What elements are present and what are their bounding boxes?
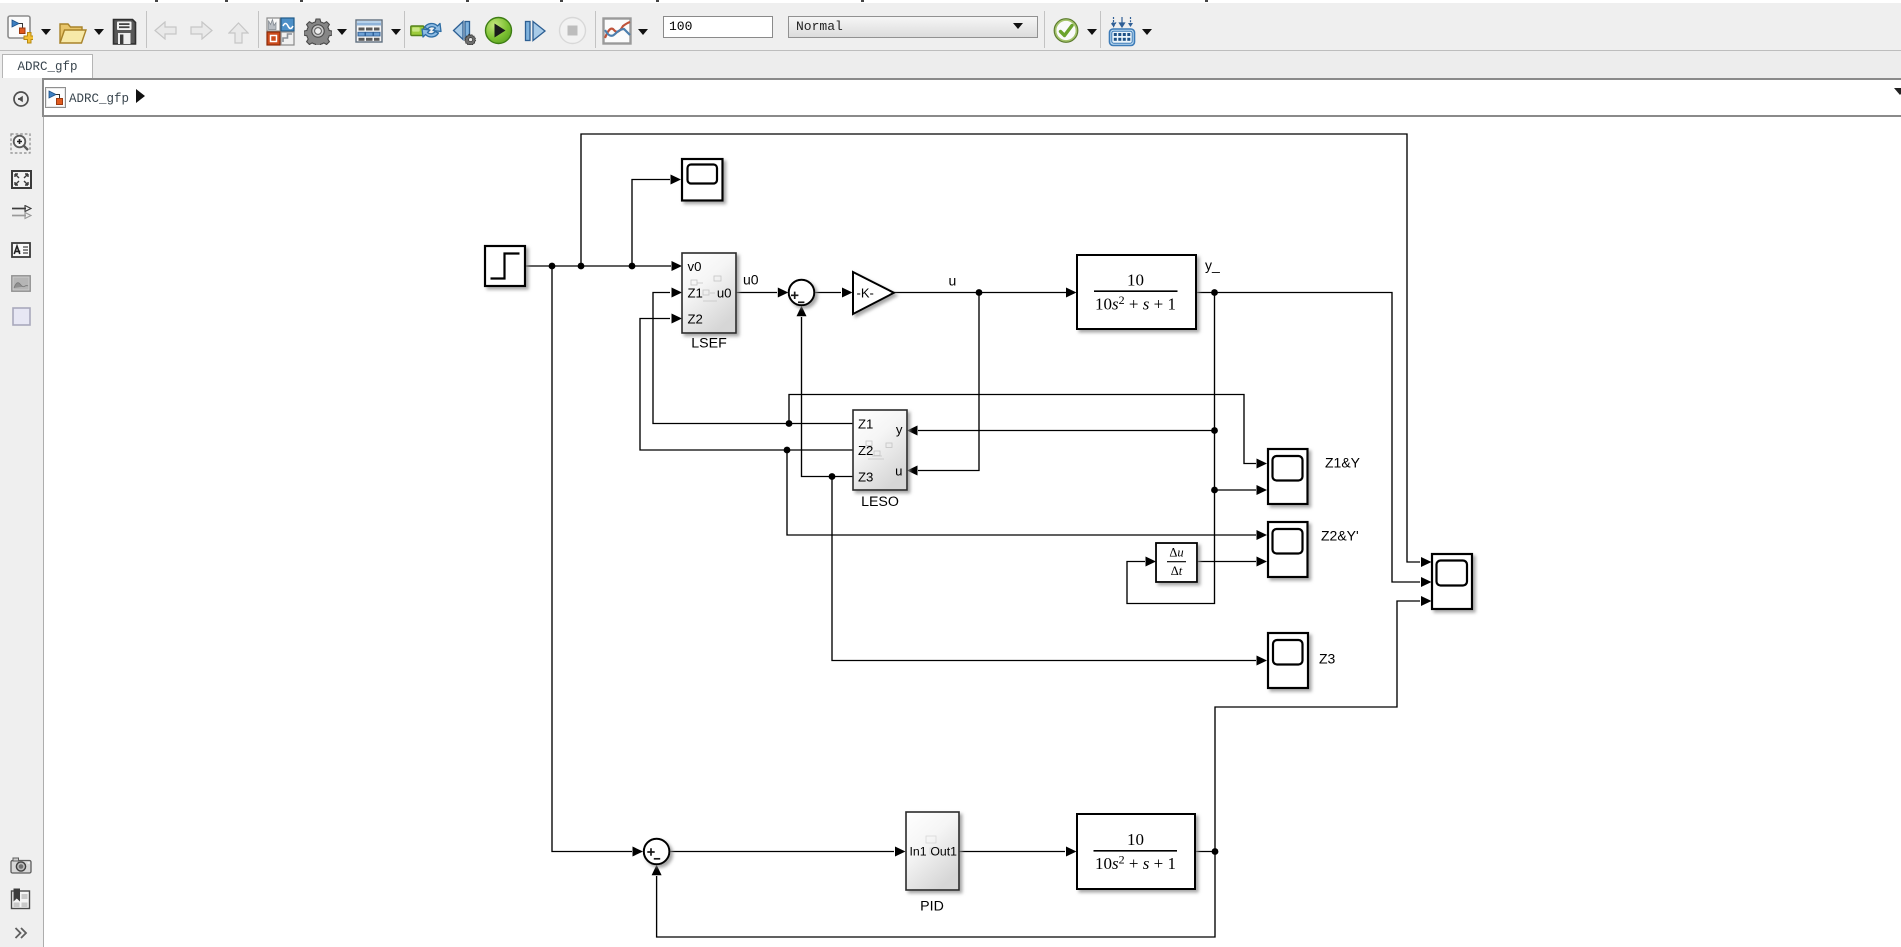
svg-text:LSEF: LSEF bbox=[691, 336, 727, 352]
svg-text:In1: In1 bbox=[910, 845, 927, 859]
svg-text:u: u bbox=[895, 464, 902, 479]
svg-text:u0: u0 bbox=[717, 286, 732, 301]
svg-text:u: u bbox=[949, 273, 957, 289]
svg-text:10: 10 bbox=[1127, 830, 1144, 849]
svg-text:PID: PID bbox=[920, 899, 944, 915]
svg-text:Z1: Z1 bbox=[858, 417, 873, 432]
svg-text:Z3: Z3 bbox=[858, 470, 873, 485]
svg-text:10: 10 bbox=[1127, 271, 1144, 290]
svg-text:-K-: -K- bbox=[857, 286, 874, 301]
svg-text:Δt: Δt bbox=[1171, 564, 1183, 578]
svg-text:Z1&Y: Z1&Y bbox=[1325, 455, 1361, 471]
svg-text:LESO: LESO bbox=[861, 494, 899, 510]
svg-text:10s2 + s + 1: 10s2 + s + 1 bbox=[1095, 293, 1176, 314]
svg-text:Z2: Z2 bbox=[858, 443, 873, 458]
svg-text:Z2: Z2 bbox=[688, 312, 703, 327]
svg-text:Z3: Z3 bbox=[1319, 651, 1336, 667]
svg-text:v0: v0 bbox=[688, 259, 702, 274]
svg-text:Z2&Y': Z2&Y' bbox=[1321, 528, 1359, 544]
svg-text:10s2 + s + 1: 10s2 + s + 1 bbox=[1095, 853, 1176, 874]
svg-text:u0: u0 bbox=[743, 272, 759, 288]
svg-text:Out1: Out1 bbox=[930, 845, 957, 859]
svg-text:Δu: Δu bbox=[1169, 546, 1183, 560]
svg-text:y_: y_ bbox=[1205, 257, 1220, 273]
svg-text:y: y bbox=[896, 422, 903, 437]
svg-text:Z1: Z1 bbox=[688, 286, 703, 301]
